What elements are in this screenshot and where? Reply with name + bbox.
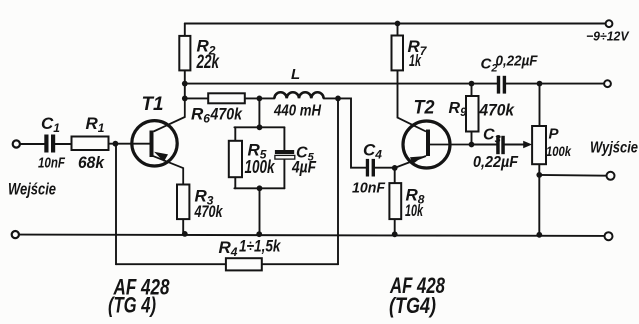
svg-text:470k: 470k: [479, 101, 516, 120]
transistor T2: [395, 118, 472, 168]
node R9/rail A: [469, 81, 475, 87]
capacitor C1: [44, 135, 55, 153]
node L right end: [335, 96, 341, 102]
terminal output mid: [607, 172, 615, 180]
resistor R7: [392, 36, 404, 71]
node P bottom/output: [536, 172, 542, 178]
wire R9 top to rail A: [471, 84, 473, 96]
wire top rail: [185, 23, 609, 25]
resistor R6: [208, 93, 245, 103]
wire R8 top: [394, 168, 396, 183]
svg-text:Wyjście: Wyjście: [590, 140, 638, 157]
wire P node down to ground rail: [538, 175, 540, 235]
wire R8 bottom to rail: [394, 219, 396, 234]
svg-text:10nF: 10nF: [352, 180, 386, 197]
wire R7 bottom to T2 collector bend: [397, 70, 399, 117]
wire R2 bottom to collector node: [184, 70, 186, 98]
wire C4 to T2 emitter junction: [375, 167, 395, 169]
wire L node vertical down to R4: [337, 98, 339, 264]
svg-text:−9÷12V: −9÷12V: [586, 29, 630, 44]
wire C1 to R1: [55, 143, 71, 145]
svg-text:(TG 4): (TG 4): [108, 293, 156, 318]
svg-text:P: P: [549, 126, 560, 143]
wire P node to output terminal 2: [539, 174, 606, 177]
potentiometer P: [523, 126, 546, 164]
wire R5 branch bottom: [234, 177, 236, 188]
svg-text:0,22µF: 0,22µF: [473, 154, 519, 171]
wire R7 top to rail: [397, 24, 399, 36]
wire R3 bottom to rail: [182, 219, 184, 234]
resistor R9: [466, 96, 479, 132]
capacitor C5 (electrolytic): [275, 150, 295, 159]
svg-text:10nF: 10nF: [38, 155, 66, 172]
node T1 collector/R6: [182, 96, 188, 102]
svg-text:68k: 68k: [78, 153, 105, 172]
svg-text:1k: 1k: [409, 51, 422, 70]
node R5C5 top: [257, 124, 263, 130]
wire R4 row left: [116, 263, 226, 265]
capacitor C4: [366, 159, 375, 177]
svg-text:10k: 10k: [405, 201, 424, 220]
node C2/P top: [537, 81, 543, 87]
node P/ground rail: [536, 232, 542, 238]
node T1 base junction: [113, 141, 119, 147]
wire top rail corner down to R2: [184, 24, 186, 36]
wire R9 bottom to C3 row: [471, 132, 473, 145]
wire T1 base node vertical down to R4: [115, 144, 117, 265]
node R3/ground rail: [182, 231, 188, 237]
svg-text:T1: T1: [142, 94, 164, 115]
capacitor C3: [496, 136, 505, 154]
wire C3 to P wiper arrow: [505, 144, 525, 146]
wire P top to rail A: [539, 84, 541, 126]
wire R6/L node down to R5C5 block: [258, 98, 260, 127]
svg-text:L: L: [291, 66, 300, 83]
node R8/ground rail: [392, 231, 398, 237]
wire C3 row from node: [472, 144, 497, 146]
resistor R4: [226, 258, 262, 270]
wire P bottom to node: [538, 164, 540, 175]
node R6/L/R5C5: [257, 96, 263, 102]
node R7/top rail: [395, 21, 401, 27]
terminal right rail A: [604, 80, 611, 87]
terminal output bottom: [605, 232, 613, 240]
svg-text:T2: T2: [414, 98, 435, 119]
wire R4 row right: [262, 263, 338, 265]
resistor R8: [389, 183, 401, 219]
wire mid ground rail: [19, 235, 604, 236]
wire input terminal to C1: [21, 143, 45, 145]
svg-text:440 mH: 440 mH: [273, 103, 321, 120]
svg-text:22k: 22k: [196, 52, 220, 73]
wire R5 branch top: [234, 127, 236, 141]
resistor R2: [179, 36, 190, 71]
svg-text:(TG4): (TG4): [389, 293, 436, 318]
resistor R5: [229, 141, 242, 177]
wire C5 branch bottom: [283, 159, 285, 188]
wire R5C5 block to ground rail: [259, 188, 261, 234]
terminal bottom left: [12, 231, 19, 238]
terminal input Wejscie: [13, 140, 20, 147]
svg-text:0,22µF: 0,22µF: [496, 53, 539, 70]
wire R6 row left: [185, 97, 208, 99]
node C4/R8/T2 emitter: [392, 165, 398, 171]
svg-text:1÷1,5k: 1÷1,5k: [239, 237, 282, 256]
svg-text:470k: 470k: [210, 105, 244, 124]
node R5C5/ground rail: [256, 231, 262, 237]
svg-text:100k: 100k: [546, 143, 572, 159]
wire R1 to T1 base: [109, 143, 150, 145]
wire C5 branch top: [283, 127, 285, 150]
node R2/rail A: [182, 81, 188, 87]
svg-text:100k: 100k: [245, 157, 276, 177]
transistor T1: [132, 98, 185, 184]
wire rail A left segment (R2/collector to C2): [185, 83, 497, 85]
resistor R1: [72, 137, 109, 151]
wire R5C5 block bottom bar: [234, 187, 284, 189]
wire L node jog to C4: [338, 98, 366, 167]
node R9/C3/T2 base: [469, 142, 475, 148]
capacitor C2: [497, 76, 506, 94]
inductor L coil: [274, 92, 323, 98]
svg-text:470k: 470k: [194, 202, 224, 221]
wire rail A right segment (C2 to output terminal): [506, 83, 604, 85]
wire R5C5 block top bar: [234, 126, 284, 128]
resistor R3: [177, 185, 189, 220]
svg-text:4µF: 4µF: [291, 158, 316, 177]
svg-text:Wejście: Wejście: [8, 180, 56, 199]
node R5C5 bottom: [257, 185, 263, 191]
wire R6 to coil: [245, 97, 275, 99]
wire coil to node: [324, 97, 338, 99]
terminal top right power: [606, 20, 613, 27]
